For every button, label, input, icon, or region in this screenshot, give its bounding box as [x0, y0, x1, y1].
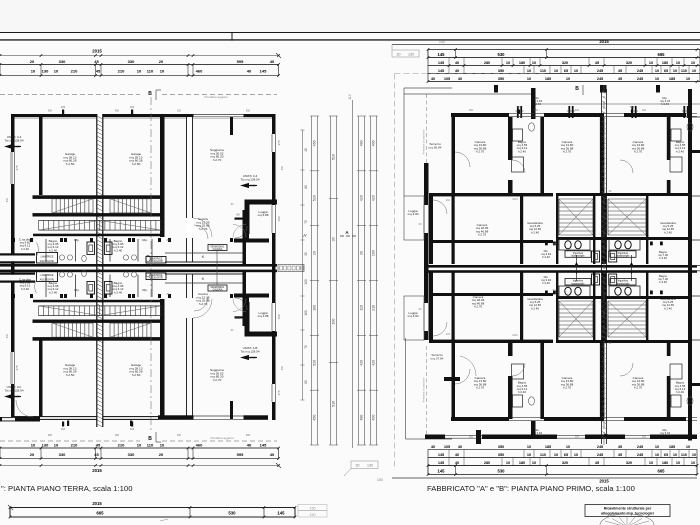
svg-text:10: 10 [31, 443, 36, 448]
svg-text:B': B' [604, 433, 608, 438]
svg-text:245: 245 [597, 77, 603, 81]
svg-text:180: 180 [662, 61, 668, 65]
svg-text:400: 400 [372, 140, 376, 146]
svg-text:h 2.40: h 2.40 [114, 290, 123, 294]
svg-text:210: 210 [446, 199, 451, 202]
svg-text:mq 59.84: mq 59.84 [429, 146, 442, 150]
svg-text:40: 40 [458, 445, 462, 449]
svg-text:h 2.70: h 2.70 [476, 386, 485, 390]
svg-text:450: 450 [313, 140, 317, 146]
svg-text:245: 245 [637, 453, 643, 457]
svg-text:B: B [148, 91, 152, 97]
svg-text:60: 60 [236, 213, 240, 217]
svg-text:30: 30 [360, 251, 364, 255]
svg-text:40: 40 [431, 77, 435, 81]
svg-text:h 2.50: h 2.50 [132, 373, 141, 377]
svg-text:h 2.70: h 2.70 [199, 227, 208, 231]
svg-text:420: 420 [372, 195, 376, 201]
svg-text:10: 10 [160, 443, 165, 448]
svg-text:45: 45 [595, 461, 599, 465]
svg-text:160: 160 [61, 105, 66, 109]
svg-text:145: 145 [260, 443, 267, 448]
svg-text:Pensilina aggetto: Pensilina aggetto [210, 436, 233, 440]
svg-text:10: 10 [655, 453, 659, 457]
svg-text:alloggiamento imp. tecnologici: alloggiamento imp. tecnologici [601, 512, 654, 516]
svg-text:45: 45 [96, 69, 101, 74]
svg-text:10: 10 [554, 453, 558, 457]
svg-text:330: 330 [128, 452, 135, 457]
svg-text:180: 180 [662, 461, 668, 465]
svg-text:lavastoviglie: lavastoviglie [616, 255, 630, 258]
svg-text:185: 185 [545, 77, 551, 81]
svg-text:520: 520 [313, 195, 317, 201]
svg-text:245: 245 [597, 445, 603, 449]
svg-text:245: 245 [637, 77, 643, 81]
svg-text:100: 100 [277, 216, 281, 221]
svg-text:530: 530 [498, 469, 506, 474]
svg-text:h 2.50: h 2.50 [132, 162, 141, 166]
svg-text:h 2.40: h 2.40 [542, 281, 550, 285]
svg-text:h 2.40: h 2.40 [518, 390, 526, 394]
svg-text:160: 160 [313, 305, 317, 311]
svg-text:10: 10 [691, 461, 695, 465]
svg-text:10: 10 [137, 443, 142, 448]
svg-text:K: K [202, 254, 205, 259]
svg-text:185: 185 [669, 445, 675, 449]
svg-text:mq 37.84: mq 37.84 [431, 357, 444, 361]
svg-text:10: 10 [574, 453, 578, 457]
svg-text:595: 595 [237, 59, 244, 64]
svg-text:450: 450 [281, 165, 284, 170]
svg-text:10: 10 [691, 61, 695, 65]
svg-text:45: 45 [94, 59, 99, 64]
svg-text:320: 320 [642, 436, 647, 439]
svg-text:1010: 1010 [512, 334, 518, 337]
svg-text:lavastoviglie: lavastoviglie [616, 282, 630, 285]
svg-text:65: 65 [664, 69, 668, 73]
svg-text:145: 145 [438, 461, 444, 465]
svg-text:ASCIUGATR.: ASCIUGATR. [40, 260, 55, 263]
svg-text:40: 40 [458, 77, 462, 81]
svg-text:h 2.70: h 2.70 [213, 158, 222, 162]
svg-text:lavastoviglie: lavastoviglie [571, 255, 585, 258]
svg-text:10: 10 [692, 453, 696, 457]
svg-text:h 2.40: h 2.40 [542, 255, 550, 259]
svg-text:245: 245 [637, 69, 643, 73]
svg-text:65: 65 [564, 453, 568, 457]
svg-text:B: B [575, 86, 579, 92]
svg-text:510: 510 [332, 401, 336, 407]
svg-text:h 2.40: h 2.40 [531, 306, 539, 310]
svg-text:K: K [202, 276, 205, 281]
svg-text:185: 185 [669, 77, 675, 81]
svg-text:210: 210 [446, 333, 451, 336]
svg-text:400: 400 [372, 415, 376, 421]
svg-text:110: 110 [360, 305, 364, 311]
svg-text:45: 45 [94, 452, 99, 457]
svg-text:320: 320 [562, 461, 568, 465]
svg-text:210: 210 [118, 69, 125, 74]
svg-text:10: 10 [566, 445, 570, 449]
svg-text:150: 150 [377, 478, 383, 482]
svg-text:100: 100 [517, 105, 522, 109]
svg-text:110: 110 [534, 109, 539, 112]
svg-text:280: 280 [484, 461, 490, 465]
svg-text:": PIANTA PIANO TERRA, scala 1: ": PIANTA PIANO TERRA, scala 1:100 [1, 484, 132, 493]
svg-text:h 2.40: h 2.40 [676, 390, 684, 394]
svg-text:lavastoviglie: lavastoviglie [571, 282, 585, 285]
svg-text:h 2.40: h 2.40 [661, 434, 669, 438]
svg-text:160: 160 [130, 427, 135, 431]
svg-text:160: 160 [61, 427, 66, 431]
svg-text:460: 460 [196, 443, 203, 448]
svg-text:+0.50: +0.50 [248, 184, 256, 188]
svg-text:145: 145 [260, 69, 267, 74]
svg-text:1010: 1010 [512, 198, 518, 201]
svg-text:30: 30 [304, 252, 308, 256]
svg-text:A': A' [303, 233, 307, 238]
svg-text:2015: 2015 [599, 39, 609, 44]
svg-text:245: 245 [637, 445, 643, 449]
svg-text:110: 110 [540, 69, 546, 73]
svg-text:h 2.70: h 2.70 [634, 386, 643, 390]
svg-text:530: 530 [498, 52, 506, 57]
svg-text:h 2.70: h 2.70 [563, 386, 572, 390]
svg-text:20: 20 [159, 59, 164, 64]
svg-text:Tot mq 128.54: Tot mq 128.54 [240, 177, 259, 181]
svg-text:110: 110 [348, 94, 352, 100]
svg-text:45: 45 [595, 61, 599, 65]
svg-text:45: 45 [618, 453, 622, 457]
svg-text:10: 10 [527, 445, 531, 449]
svg-text:450: 450 [6, 197, 9, 202]
svg-text:mq 4.90: mq 4.90 [408, 212, 419, 216]
svg-text:45: 45 [618, 77, 622, 81]
svg-text:510: 510 [332, 154, 336, 160]
svg-text:h 2.70: h 2.70 [474, 305, 483, 309]
svg-text:70: 70 [304, 220, 308, 224]
svg-text:375: 375 [277, 140, 281, 145]
svg-text:160: 160 [130, 105, 135, 109]
svg-text:2015: 2015 [92, 49, 102, 54]
svg-text:110: 110 [681, 69, 687, 73]
svg-text:20: 20 [313, 251, 317, 255]
svg-text:245: 245 [597, 69, 603, 73]
svg-text:320: 320 [626, 461, 632, 465]
svg-text:350: 350 [469, 436, 474, 439]
svg-text:20: 20 [159, 452, 164, 457]
svg-text:145: 145 [438, 469, 446, 474]
svg-text:10: 10 [686, 77, 690, 81]
svg-text:320: 320 [626, 61, 632, 65]
svg-text:40: 40 [455, 461, 459, 465]
svg-text:450: 450 [313, 415, 317, 421]
svg-text:150: 150 [439, 40, 445, 44]
svg-text:10: 10 [527, 77, 531, 81]
svg-text:375: 375 [15, 165, 19, 170]
svg-text:h 2.40: h 2.40 [21, 287, 29, 291]
svg-text:20: 20 [30, 59, 35, 64]
svg-text:280: 280 [484, 61, 490, 65]
svg-text:350: 350 [498, 69, 504, 73]
svg-text:10: 10 [506, 61, 510, 65]
svg-text:180: 180 [519, 61, 525, 65]
svg-text:Tot mq 128.54: Tot mq 128.54 [4, 138, 23, 142]
svg-text:CALDAIA: CALDAIA [213, 248, 223, 251]
svg-text:10: 10 [532, 461, 536, 465]
svg-text:40: 40 [270, 452, 275, 457]
svg-text:420: 420 [360, 195, 364, 201]
svg-text:+0.50: +0.50 [12, 395, 20, 399]
svg-text:Pensilina aggetto: Pensilina aggetto [204, 95, 227, 99]
svg-text:30: 30 [397, 53, 401, 57]
svg-text:h 2.40: h 2.40 [114, 248, 123, 252]
svg-text:h 2.40: h 2.40 [533, 434, 541, 438]
svg-text:45: 45 [618, 69, 622, 73]
svg-text:320: 320 [575, 109, 580, 112]
svg-text:CALDAIA: CALDAIA [213, 288, 223, 291]
svg-text:10: 10 [673, 69, 677, 73]
svg-text:330: 330 [59, 452, 66, 457]
svg-text:10: 10 [574, 69, 578, 73]
svg-text:110: 110 [681, 453, 687, 457]
svg-text:145: 145 [438, 69, 444, 73]
svg-text:10: 10 [137, 69, 142, 74]
svg-text:980: 980 [115, 110, 120, 113]
svg-text:h 2.40: h 2.40 [664, 306, 672, 310]
svg-text:LAVATRICE: LAVATRICE [41, 255, 54, 258]
svg-text:40: 40 [247, 69, 252, 74]
svg-text:h 2.40: h 2.40 [659, 280, 667, 284]
svg-text:10: 10 [160, 69, 165, 74]
svg-text:h 2.40: h 2.40 [49, 248, 58, 252]
svg-text:10: 10 [655, 445, 659, 449]
svg-text:h 2.40: h 2.40 [661, 102, 669, 106]
svg-text:980: 980 [48, 434, 53, 437]
svg-text:10: 10 [676, 61, 680, 65]
svg-text:10: 10 [54, 443, 59, 448]
svg-text:460: 460 [196, 69, 203, 74]
svg-text:110: 110 [147, 443, 154, 448]
svg-text:130: 130 [367, 464, 373, 468]
svg-text:10: 10 [304, 148, 308, 152]
svg-text:40: 40 [455, 453, 459, 457]
svg-text:330: 330 [177, 434, 182, 437]
svg-text:30: 30 [332, 237, 336, 241]
svg-text:h 2.40: h 2.40 [659, 256, 667, 260]
svg-text:FABBRICATO "A" e "B": PIANTA P: FABBRICATO "A" e "B": PIANTA PIANO PRIMO… [427, 484, 635, 493]
svg-text:420: 420 [360, 360, 364, 366]
svg-text:ASCIUGATR.: ASCIUGATR. [40, 278, 55, 281]
svg-text:80: 80 [304, 380, 308, 384]
svg-text:145: 145 [438, 61, 444, 65]
svg-text:10: 10 [566, 77, 570, 81]
svg-text:420: 420 [372, 360, 376, 366]
svg-text:980: 980 [48, 110, 53, 113]
svg-text:595: 595 [237, 452, 244, 457]
svg-text:145: 145 [277, 511, 285, 516]
svg-text:h 2.70: h 2.70 [476, 150, 485, 154]
svg-text:10: 10 [527, 69, 531, 73]
svg-text:h 2.50: h 2.50 [66, 373, 75, 377]
svg-text:30: 30 [356, 464, 360, 468]
svg-text:40: 40 [431, 445, 435, 449]
svg-text:330: 330 [128, 59, 135, 64]
svg-text:10: 10 [686, 445, 690, 449]
svg-text:60: 60 [236, 316, 240, 320]
svg-text:210: 210 [71, 443, 78, 448]
svg-text:330: 330 [177, 110, 182, 113]
svg-text:h 2.40: h 2.40 [21, 247, 29, 251]
svg-text:70: 70 [304, 345, 308, 349]
svg-text:110: 110 [540, 453, 546, 457]
svg-text:h 2.40: h 2.40 [676, 149, 684, 153]
svg-text:980: 980 [115, 434, 120, 437]
svg-text:20: 20 [30, 452, 35, 457]
svg-text:665: 665 [658, 469, 666, 474]
svg-text:665: 665 [96, 511, 104, 516]
svg-text:375: 375 [277, 390, 281, 395]
svg-text:10: 10 [673, 453, 677, 457]
svg-text:105: 105 [444, 77, 450, 81]
svg-text:Pensilina sovrastante: Pensilina sovrastante [422, 377, 426, 402]
svg-text:40: 40 [455, 61, 459, 65]
svg-text:2015: 2015 [599, 479, 609, 484]
svg-text:110: 110 [147, 69, 154, 74]
svg-text:160: 160 [304, 310, 308, 316]
svg-text:330: 330 [59, 59, 66, 64]
svg-text:80: 80 [304, 185, 308, 189]
svg-text:350: 350 [469, 109, 474, 112]
svg-text:Rip.: Rip. [142, 288, 148, 292]
svg-text:180: 180 [519, 461, 525, 465]
svg-text:LAVATRICE: LAVATRICE [41, 274, 54, 277]
svg-text:Ricavilmente strutturale per: Ricavilmente strutturale per [604, 507, 652, 511]
svg-text:145: 145 [438, 453, 444, 457]
svg-text:150: 150 [309, 507, 315, 511]
svg-text:130: 130 [42, 69, 49, 74]
svg-text:130: 130 [408, 53, 414, 57]
svg-text:h 2.70: h 2.70 [563, 150, 572, 154]
svg-text:10: 10 [532, 61, 536, 65]
svg-text:350: 350 [498, 453, 504, 457]
svg-text:665: 665 [658, 52, 666, 57]
svg-text:Pensilina sovrastante: Pensilina sovrastante [422, 129, 426, 154]
svg-text:210: 210 [118, 443, 125, 448]
svg-text:320: 320 [562, 61, 568, 65]
svg-text:+0.50: +0.50 [12, 145, 20, 149]
svg-text:10: 10 [692, 69, 696, 73]
svg-text:h 2.70: h 2.70 [213, 378, 222, 382]
svg-text:100: 100 [630, 105, 635, 109]
svg-text:350: 350 [498, 77, 504, 81]
svg-text:595: 595 [246, 110, 251, 113]
svg-text:320: 320 [642, 109, 647, 112]
svg-text:h 2.40: h 2.40 [664, 230, 672, 234]
svg-text:10: 10 [527, 453, 531, 457]
svg-text:595: 595 [246, 434, 251, 437]
svg-text:mq 4.90: mq 4.90 [408, 314, 419, 318]
svg-text:520: 520 [313, 360, 317, 366]
svg-text:10: 10 [54, 69, 59, 74]
svg-text:40: 40 [247, 443, 252, 448]
svg-text:10: 10 [31, 69, 36, 74]
svg-text:10: 10 [554, 69, 558, 73]
svg-text:375: 375 [15, 365, 19, 370]
svg-text:530: 530 [228, 511, 236, 516]
svg-text:10: 10 [649, 61, 653, 65]
svg-text:100: 100 [332, 319, 336, 325]
svg-text:130: 130 [42, 443, 49, 448]
svg-text:45: 45 [618, 445, 622, 449]
svg-text:10: 10 [676, 461, 680, 465]
svg-text:245: 245 [597, 453, 603, 457]
svg-text:mq 4.88: mq 4.88 [258, 314, 269, 318]
svg-text:40: 40 [270, 59, 275, 64]
svg-text:150: 150 [309, 513, 315, 517]
svg-text:100: 100 [304, 279, 308, 285]
svg-text:65: 65 [564, 69, 568, 73]
svg-text:10: 10 [655, 77, 659, 81]
svg-text:B: B [148, 436, 152, 442]
svg-text:320: 320 [575, 436, 580, 439]
svg-text:350: 350 [498, 445, 504, 449]
svg-text:10: 10 [655, 69, 659, 73]
svg-text:450: 450 [6, 333, 9, 338]
svg-text:Tot mq 128.54: Tot mq 128.54 [240, 349, 259, 353]
svg-text:+0.50: +0.50 [248, 356, 256, 360]
svg-text:480: 480 [360, 415, 364, 421]
svg-text:2015: 2015 [92, 468, 102, 473]
svg-text:100: 100 [277, 314, 281, 319]
svg-text:40: 40 [455, 69, 459, 73]
svg-text:h 2.40: h 2.40 [531, 230, 539, 234]
svg-text:mq 4.88: mq 4.88 [258, 213, 269, 217]
svg-text:h 2.40: h 2.40 [533, 102, 541, 106]
svg-text:h 2.70: h 2.70 [634, 150, 643, 154]
svg-text:480: 480 [360, 140, 364, 146]
svg-text:10: 10 [506, 461, 510, 465]
svg-text:h 2.70: h 2.70 [478, 233, 487, 237]
svg-text:160: 160 [372, 250, 376, 256]
svg-text:h 2.40: h 2.40 [518, 149, 526, 153]
svg-text:10: 10 [649, 461, 653, 465]
svg-text:Tot mq 128.54: Tot mq 128.54 [4, 388, 23, 392]
svg-text:185: 185 [545, 445, 551, 449]
svg-text:65: 65 [664, 453, 668, 457]
svg-text:210: 210 [71, 69, 78, 74]
svg-text:Rip.: Rip. [142, 238, 148, 242]
svg-text:145: 145 [438, 52, 446, 57]
svg-text:h 2.50: h 2.50 [66, 162, 75, 166]
svg-text:210: 210 [372, 305, 376, 311]
svg-text:450: 450 [281, 365, 284, 370]
svg-text:105: 105 [444, 445, 450, 449]
svg-text:2015: 2015 [92, 501, 102, 506]
svg-text:h 2.40: h 2.40 [49, 290, 58, 294]
